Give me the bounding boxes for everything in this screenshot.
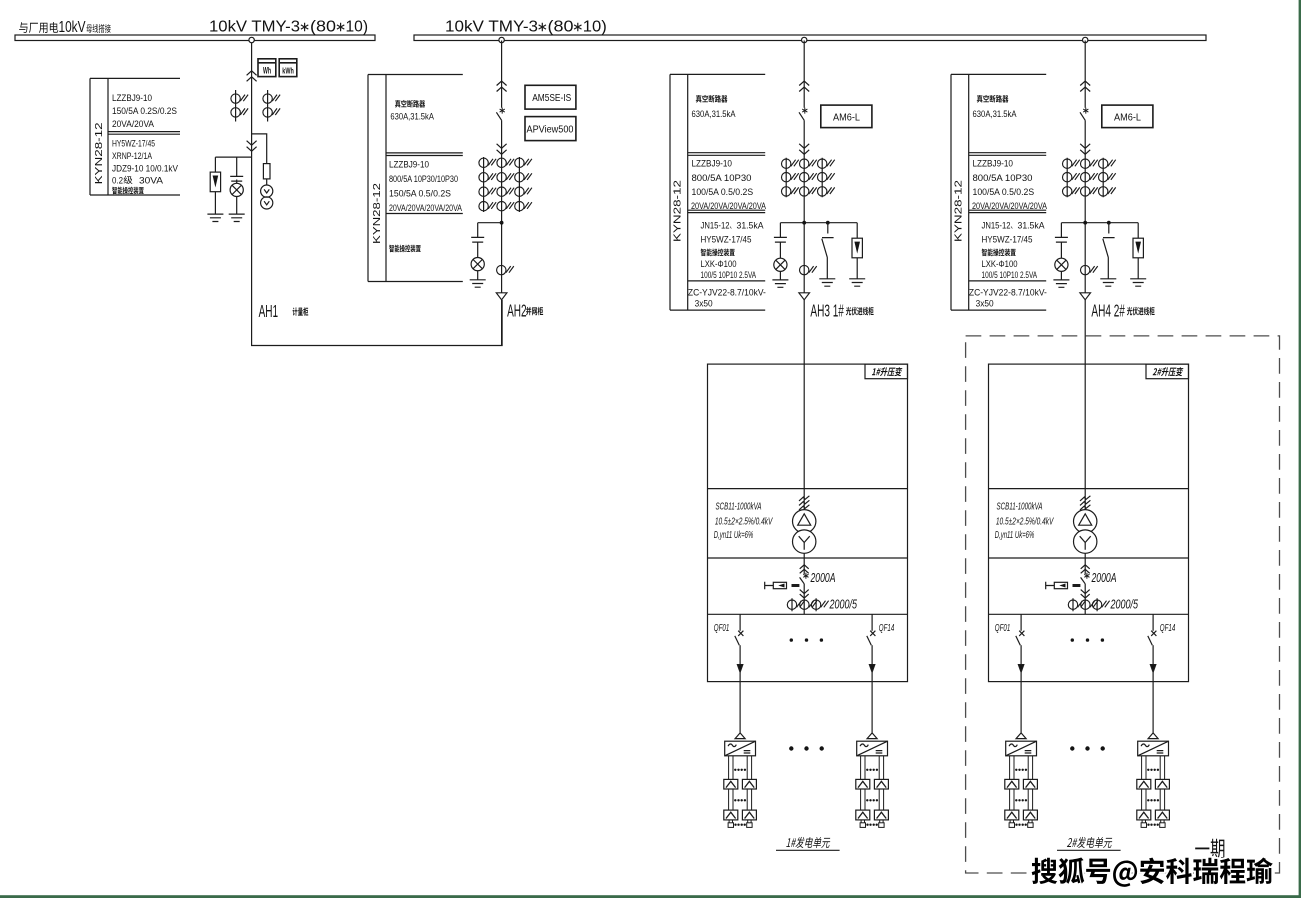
svg-text:KYN28-12: KYN28-12 bbox=[671, 180, 683, 242]
svg-text:LZZBJ9-10: LZZBJ9-10 bbox=[112, 93, 152, 103]
AH2 protection device AM5SE-IS bbox=[525, 85, 576, 109]
svg-text:30VA: 30VA bbox=[139, 175, 163, 185]
AH2 vacuum breaker bbox=[500, 108, 505, 114]
svg-text:QF14: QF14 bbox=[879, 623, 895, 634]
lower drawout contact bbox=[799, 144, 809, 155]
transformer SCB11 delta winding bbox=[793, 510, 816, 533]
LV drawout contact up bbox=[800, 565, 809, 574]
svg-text:LZZBJ9-10: LZZBJ9-10 bbox=[389, 160, 429, 170]
svg-text:QF01: QF01 bbox=[714, 623, 730, 634]
step-up transformer box bbox=[708, 364, 908, 681]
svg-text:(80: (80 bbox=[310, 19, 336, 36]
phase II dashed boundary bbox=[966, 336, 1280, 873]
svg-text:LZZBJ9-10: LZZBJ9-10 bbox=[692, 159, 733, 169]
AH1 energy meter kWh bbox=[279, 59, 297, 77]
svg-text:(80: (80 bbox=[548, 19, 574, 36]
svg-text:KYN28-12: KYN28-12 bbox=[371, 183, 383, 244]
AH1 feeder drawout contact bbox=[247, 71, 257, 82]
cable squiggle marks bbox=[799, 496, 809, 501]
svg-text:LXK-Φ100: LXK-Φ100 bbox=[701, 259, 737, 269]
svg-text:10): 10) bbox=[583, 19, 607, 36]
dots between feeders bbox=[790, 638, 824, 641]
LV CT row 2000/5 bbox=[792, 598, 816, 611]
cable head arrow bbox=[799, 293, 810, 300]
node on busbar II bbox=[802, 37, 807, 42]
surge arrester HY5WZ bbox=[856, 223, 858, 279]
svg-text:2000/5: 2000/5 bbox=[829, 596, 858, 611]
svg-text:630A,31.5kA: 630A,31.5kA bbox=[692, 109, 736, 119]
svg-text:800/5A 10P30: 800/5A 10P30 bbox=[692, 173, 752, 183]
AH2 ground bbox=[470, 280, 486, 287]
svg-text:3x50: 3x50 bbox=[695, 299, 713, 309]
AH1 indicator lamp bbox=[230, 183, 243, 196]
dots between inverters bbox=[789, 746, 824, 750]
outgoing feeder QF14 bbox=[867, 614, 876, 733]
svg-text:AH2: AH2 bbox=[507, 301, 526, 321]
AH2 zero-sequence CT bbox=[497, 265, 514, 274]
plant 10kV busbar I bbox=[15, 35, 375, 41]
svg-text:kWh: kWh bbox=[282, 67, 294, 76]
svg-text:20VA/20VA/20VA/20VA: 20VA/20VA/20VA/20VA bbox=[691, 201, 766, 211]
svg-text:20VA/20VA/20VA/20VA: 20VA/20VA/20VA/20VA bbox=[389, 203, 462, 213]
svg-text:100/5 10P10 2.5VA: 100/5 10P10 2.5VA bbox=[701, 270, 757, 280]
AH1 aux branch wire bbox=[215, 157, 251, 214]
feeder wire bbox=[803, 41, 805, 510]
svg-text:800/5A 10P30/10P30: 800/5A 10P30/10P30 bbox=[389, 174, 458, 184]
svg-text:HY5WZ-17/45: HY5WZ-17/45 bbox=[701, 234, 752, 244]
green page border bottom bbox=[0, 895, 1301, 898]
transformer spec text bbox=[714, 501, 773, 542]
upper drawout contact bbox=[799, 81, 809, 92]
svg-text:10kV TMY-3: 10kV TMY-3 bbox=[209, 19, 300, 36]
svg-text:AH4 2#: AH4 2# bbox=[1091, 301, 1125, 321]
LV wire bbox=[803, 553, 805, 614]
svg-text:KYN28-12: KYN28-12 bbox=[93, 122, 105, 184]
svg-text:10.5±2×2.5%/0.4kV: 10.5±2×2.5%/0.4kV bbox=[715, 516, 773, 528]
wire AH1 to AH2 tie cable bbox=[252, 41, 503, 346]
node on busbar II at AH2 bbox=[499, 37, 504, 42]
AH2 live-display capacitor bbox=[471, 237, 484, 242]
drawout truck symbol bbox=[765, 582, 800, 589]
protection device AM6-L bbox=[821, 105, 872, 128]
svg-text:ZC-YJV22-8.7/10kV-: ZC-YJV22-8.7/10kV- bbox=[688, 287, 766, 297]
svg-text:AH1: AH1 bbox=[259, 301, 279, 321]
svg-text:150/5A 0.2S/0.2S: 150/5A 0.2S/0.2S bbox=[112, 106, 177, 116]
svg-text:0.2: 0.2 bbox=[112, 175, 123, 185]
AH1 CT column right (2 cores) bbox=[267, 90, 269, 122]
cabinet spec table bbox=[670, 74, 765, 310]
LV drawout contact down bbox=[800, 590, 809, 599]
svg-text:AM5SE-IS: AM5SE-IS bbox=[532, 93, 571, 104]
svg-text:APView500: APView500 bbox=[527, 124, 574, 136]
AH1 spec table texts bbox=[93, 93, 178, 194]
2# transformer label bbox=[1153, 367, 1184, 376]
svg-text:Wh: Wh bbox=[263, 66, 271, 76]
AH1 surge arrester HY5WZ bbox=[210, 172, 220, 192]
AH2 cable head arrow bbox=[496, 293, 507, 300]
svg-text:XRNP-12/1A: XRNP-12/1A bbox=[112, 151, 152, 161]
transformer wye winding bbox=[793, 530, 816, 553]
2# generating unit label bbox=[1067, 837, 1113, 848]
AH1 lamp ground bbox=[229, 214, 245, 221]
svg-text:10): 10) bbox=[346, 19, 369, 36]
svg-text:10kV: 10kV bbox=[59, 19, 86, 36]
svg-text:10kV TMY-3: 10kV TMY-3 bbox=[445, 19, 538, 36]
PV 10kV busbar II bbox=[414, 35, 1206, 41]
watermark 搜狐号@安科瑞程瑜 bbox=[1032, 857, 1273, 886]
AH1 energy meter Wh bbox=[258, 59, 276, 77]
svg-text:100/5A 0.5/0.2S: 100/5A 0.5/0.2S bbox=[692, 187, 754, 197]
inverter string 2 bbox=[856, 733, 889, 827]
AH2 junction node bbox=[500, 221, 504, 225]
AH2 live-display branch wire bbox=[478, 223, 502, 280]
node on busbar I at AH1 bbox=[249, 37, 254, 42]
svg-text:D,yn11 Uk=6%: D,yn11 Uk=6% bbox=[714, 529, 754, 541]
junction wire bbox=[780, 222, 857, 224]
phase label 一期 bbox=[1195, 839, 1224, 859]
AH2 spec table texts bbox=[371, 100, 462, 252]
AH2 lower drawout contact bbox=[497, 144, 507, 155]
vacuum breaker bbox=[802, 108, 807, 114]
AH1 PT branch wire bbox=[252, 134, 267, 185]
AH1 arrester ground bbox=[207, 214, 223, 221]
svg-text:SCB11-1000kVA: SCB11-1000kVA bbox=[716, 501, 762, 513]
AH3 + 1# step-up transformer + 1# generating unit (reused group) bbox=[670, 37, 908, 827]
green page border right bbox=[1299, 0, 1301, 898]
inverter string 1 bbox=[724, 733, 757, 827]
AH4 + 2# unit (clone of AH3 assembly) bbox=[951, 37, 1189, 827]
AH1 PT fuse XRNP-12 bbox=[263, 164, 270, 179]
svg-text:20VA/20VA: 20VA/20VA bbox=[112, 119, 154, 129]
AH2 cabinet spec table KYN28-12 bbox=[368, 75, 463, 282]
AH2 device APView500 bbox=[525, 117, 576, 141]
AH1 CT column left (2 cores) bbox=[235, 90, 237, 122]
1# transformer label bbox=[872, 367, 903, 376]
AH1 voltage transformer JDZ9-10 bbox=[261, 185, 273, 197]
svg-text:JN15-12: JN15-12 bbox=[701, 220, 730, 230]
1# generating unit label bbox=[786, 837, 831, 848]
AH1 cabinet spec table KYN28-12 bbox=[90, 78, 180, 195]
svg-text:HY5WZ-17/45: HY5WZ-17/45 bbox=[112, 139, 155, 149]
CT array 3x3 bbox=[786, 158, 822, 198]
zero-sequence CT LXK bbox=[800, 265, 817, 274]
svg-text:150/5A 0.5/0.2S: 150/5A 0.5/0.2S bbox=[389, 188, 451, 198]
svg-text:JDZ9-10 10/0.1kV: JDZ9-10 10/0.1kV bbox=[112, 163, 178, 173]
svg-text:630A,31.5kA: 630A,31.5kA bbox=[390, 112, 434, 122]
AH2 CT array 3x4 bbox=[484, 157, 520, 212]
svg-text:AM6-L: AM6-L bbox=[833, 112, 860, 123]
svg-text:2000A: 2000A bbox=[810, 570, 836, 585]
AH1 lower drawout contact bbox=[247, 141, 257, 152]
AH2 upper drawout contact bbox=[497, 81, 507, 92]
svg-text:AH3 1#: AH3 1# bbox=[810, 301, 844, 321]
AH1 live-display capacitor bbox=[230, 176, 243, 181]
outgoing feeder QF01 bbox=[735, 614, 744, 733]
LV breaker 2000A bbox=[803, 573, 808, 579]
AH2 indicator lamp bbox=[471, 258, 484, 271]
svg-text:31.5kA: 31.5kA bbox=[737, 220, 764, 230]
live-display branch bbox=[779, 223, 781, 280]
AH2 feeder wire bbox=[501, 41, 503, 346]
earthing switch JN15-12 bbox=[822, 223, 834, 279]
